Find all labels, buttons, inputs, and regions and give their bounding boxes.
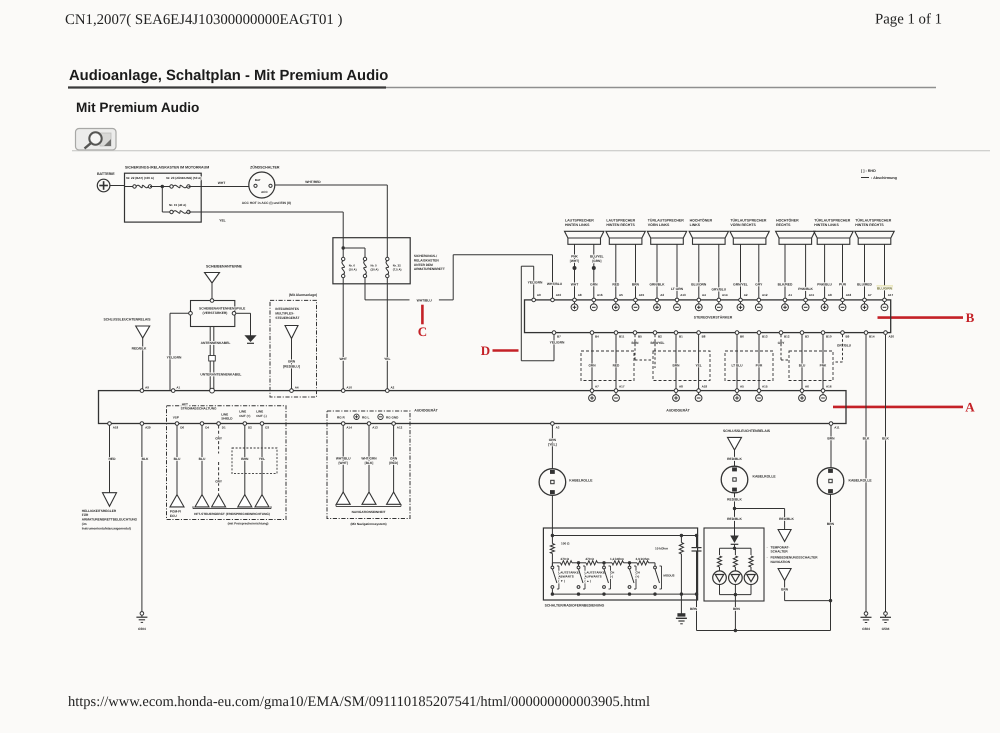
- svg-text:BLU/ORN: BLU/ORN: [691, 283, 707, 287]
- svg-text:A12: A12: [762, 293, 768, 297]
- svg-text:INTEGRIERTES: INTEGRIERTES: [275, 307, 299, 311]
- svg-text:GRY/BLU: GRY/BLU: [837, 344, 852, 348]
- svg-text:RED/BLK: RED/BLK: [779, 517, 794, 521]
- svg-text:SICHERUNGS-/: SICHERUNGS-/: [414, 254, 437, 258]
- svg-text:B2: B2: [658, 335, 662, 339]
- svg-text:AUDIOGERÄT: AUDIOGERÄT: [666, 409, 690, 413]
- switch CH minus: [603, 563, 605, 566]
- svg-text:A6: A6: [805, 385, 809, 389]
- svg-text:RED/BLK: RED/BLK: [727, 497, 742, 501]
- wire YEL D3: [261, 426, 263, 495]
- svg-text:BLK: BLK: [142, 457, 149, 461]
- svg-text:10 kOhm: 10 kOhm: [655, 546, 668, 550]
- svg-text:A13: A13: [372, 425, 378, 429]
- wire BRN D2: [244, 426, 246, 495]
- svg-text:SCHALTER: SCHALTER: [771, 550, 789, 554]
- svg-text:( ▲ ): ( ▲ ): [585, 579, 592, 583]
- svg-text:PUR: PUR: [839, 283, 847, 287]
- capacitor: [695, 534, 698, 537]
- wire antenna to coil: [211, 283, 213, 301]
- svg-text:B11: B11: [619, 335, 625, 339]
- pin antenna lead audio unit top: [210, 388, 215, 393]
- wire speaker 1 left lead: [574, 244, 576, 298]
- svg-text:A9: A9: [537, 293, 541, 297]
- wire BLK A20 to ground: [885, 335, 887, 614]
- svg-text:RED/BLK: RED/BLK: [132, 347, 147, 351]
- svg-text:KABELROLLE: KABELROLLE: [753, 475, 777, 479]
- svg-text:[RED/BLU]: [RED/BLU]: [283, 364, 300, 368]
- svg-text:D: D: [481, 343, 490, 358]
- node top bus: [551, 534, 554, 537]
- svg-text:Audioanlage, Schaltplan - Mit: Audioanlage, Schaltplan - Mit Premium Au…: [69, 68, 388, 84]
- pin B6 amplifier bottom: [735, 331, 739, 335]
- svg-text:G504: G504: [862, 627, 870, 631]
- svg-text:TÜRLAUTSPRECHER: TÜRLAUTSPRECHER: [648, 219, 684, 223]
- svg-text:VORN LINKS: VORN LINKS: [648, 223, 670, 227]
- svg-text:Nr. 15 (40 A): Nr. 15 (40 A): [169, 203, 186, 207]
- svg-text:HINTEN LINKS: HINTEN LINKS: [565, 223, 590, 227]
- svg-text:B10: B10: [826, 335, 832, 339]
- lamp resistors: [717, 556, 721, 567]
- pin A12 audio unit bottom: [392, 422, 396, 426]
- pin A9 amplifier top: [532, 298, 536, 302]
- wire BRN tempomat to bus: [784, 581, 786, 601]
- svg-text:B14: B14: [869, 335, 875, 339]
- svg-text:RED: RED: [613, 364, 620, 368]
- pin D1 audio unit bottom: [217, 422, 221, 426]
- pin B8 amplifier bottom: [697, 331, 701, 335]
- wire speaker 8 right lead: [884, 244, 886, 298]
- svg-text:A5: A5: [619, 293, 623, 297]
- svg-text:HELLIGKEITSREGLER: HELLIGKEITSREGLER: [82, 509, 117, 513]
- svg-text:C: C: [418, 324, 427, 339]
- svg-text:[WHT]: [WHT]: [570, 259, 579, 263]
- pin A14 audio unit bottom: [341, 422, 345, 426]
- svg-text:PNK/BLU: PNK/BLU: [817, 283, 832, 287]
- svg-text:A4: A4: [702, 293, 706, 297]
- svg-text:A17: A17: [619, 385, 625, 389]
- amplifier speaker polarity symbols: [571, 304, 578, 311]
- pin D4 audio unit bottom: [200, 422, 204, 426]
- wire cable reel to remote switch box: [551, 495, 553, 536]
- svg-text:ARMATURENBRETT: ARMATURENBRETT: [414, 267, 445, 271]
- pin A9 audio unit top: [140, 389, 144, 393]
- pin A18 audio unit bottom: [108, 422, 112, 426]
- svg-text:B5: B5: [638, 335, 642, 339]
- switch LAUTSTAERKE ABWAERTS: [551, 563, 553, 566]
- switch CH plus: [629, 563, 631, 566]
- cable reel KABELROLLE 1: [539, 469, 566, 496]
- pin A18 amplifier top: [841, 298, 845, 302]
- svg-text:(Mit Alarmanlage): (Mit Alarmanlage): [289, 293, 317, 297]
- svg-text:BRN: BRN: [632, 283, 640, 287]
- svg-text:SCHEIBENANTENNE: SCHEIBENANTENNE: [206, 264, 243, 268]
- svg-text:RELAISKASTEN: RELAISKASTEN: [414, 258, 439, 262]
- wire BLK B14 to ground: [865, 335, 867, 614]
- svg-text:(im: (im: [82, 522, 87, 526]
- svg-text:[BLK]: [BLK]: [365, 461, 374, 465]
- svg-text:SCHALTER/RADIOFERNBEDIENUNG: SCHALTER/RADIOFERNBEDIENUNG: [545, 603, 605, 607]
- svg-text:BLU/YEL: BLU/YEL: [590, 255, 604, 259]
- wire speaker 3 right lead: [676, 244, 678, 298]
- svg-text:Nr. 22 (BAT) (100 A): Nr. 22 (BAT) (100 A): [126, 176, 154, 180]
- lamp bus bottom: [719, 585, 721, 595]
- wire junction down to fuse Nr.15: [161, 187, 163, 213]
- svg-text:FÜR: FÜR: [82, 513, 89, 517]
- pin B14 amplifier bottom: [864, 331, 868, 335]
- svg-text:GRN/YEL: GRN/YEL: [733, 283, 748, 287]
- pin B5 amplifier bottom: [633, 331, 637, 335]
- wire WHTBLU A14 to navigation: [342, 426, 344, 493]
- svg-text:HINTEN LINKS: HINTEN LINKS: [814, 223, 839, 227]
- svg-text:GRY: GRY: [755, 283, 763, 287]
- svg-text:BLU: BLU: [174, 457, 181, 461]
- svg-text:KABELROLLE: KABELROLLE: [569, 479, 593, 483]
- svg-text:A11: A11: [834, 425, 840, 429]
- svg-text:B: B: [966, 310, 975, 325]
- svg-text:B6: B6: [740, 335, 744, 339]
- antenna cable ANTENNENKABEL: [209, 327, 211, 391]
- wire speaker 5 left lead: [740, 244, 742, 298]
- svg-text:GRN: GRN: [549, 438, 557, 442]
- svg-text:A10: A10: [346, 385, 352, 389]
- pin A10 amplifier top: [551, 298, 555, 302]
- pin B1 amplifier bottom: [674, 331, 678, 335]
- svg-text:BLK: BLK: [882, 437, 889, 441]
- svg-text:RED: RED: [109, 457, 117, 461]
- svg-text:TÜRLAUTSPRECHER: TÜRLAUTSPRECHER: [855, 219, 891, 223]
- svg-text:YEL: YEL: [259, 457, 265, 461]
- pin B11 amplifier bottom: [614, 331, 618, 335]
- svg-text:A29: A29: [145, 425, 151, 429]
- illumination lamps: [713, 571, 727, 585]
- svg-text:HINTEN RECHTS: HINTEN RECHTS: [855, 223, 884, 227]
- svg-text:BRN: BRN: [690, 607, 698, 611]
- svg-text:PGM-FI: PGM-FI: [170, 510, 181, 514]
- wire speaker 6 right lead: [805, 244, 807, 298]
- fuse Nr.32 7.5A: [386, 257, 389, 260]
- wire speaker 2 left lead: [615, 244, 617, 298]
- wire pair B6 B13 to audio A5 A15: [736, 335, 738, 389]
- bus BRN bottom: [697, 630, 831, 632]
- fuse Nr.23: [170, 185, 173, 188]
- svg-text:TÜRLAUTSPRECHER: TÜRLAUTSPRECHER: [730, 219, 766, 223]
- illumination box with diode and lamps: [704, 528, 764, 601]
- svg-text:HFT-STEUERGERÄT (FREISPRECHEIN: HFT-STEUERGERÄT (FREISPRECHEINRICHTUNG): [194, 512, 270, 516]
- svg-text:B13: B13: [762, 335, 768, 339]
- svg-text:GRY: GRY: [215, 479, 223, 483]
- svg-text:G504: G504: [882, 627, 890, 631]
- svg-text:A7: A7: [595, 385, 599, 389]
- wire WHT fuse box to ignition switch: [201, 186, 249, 188]
- ground G504 left: [140, 612, 144, 616]
- svg-text:B12: B12: [784, 335, 790, 339]
- svg-text:B7: B7: [557, 335, 561, 339]
- svg-text:(7,5 A): (7,5 A): [393, 268, 402, 272]
- pin A5 audio unit top: [735, 389, 739, 393]
- svg-text:HINTEN RECHTS: HINTEN RECHTS: [606, 223, 635, 227]
- svg-text:G504: G504: [138, 627, 146, 631]
- pin A16 amplifier top: [592, 298, 596, 302]
- control unit NAVIGATIONSEINHEIT dashed box: [327, 411, 410, 519]
- svg-text:OUT (-): OUT (-): [256, 414, 266, 418]
- bottom bus remote switch box: [551, 589, 553, 594]
- svg-text:WHT/GRN: WHT/GRN: [361, 456, 377, 460]
- svg-text:BATTERIE: BATTERIE: [97, 172, 115, 176]
- svg-text:(Mit Navigationssystem): (Mit Navigationssystem): [350, 522, 386, 526]
- svg-text:100 Ω: 100 Ω: [561, 541, 570, 545]
- pin A16 audio unit top: [821, 389, 825, 393]
- pin B13 amplifier bottom: [757, 331, 761, 335]
- svg-text:BRN: BRN: [733, 607, 741, 611]
- arrow TEMPOMAT switch: [778, 530, 791, 542]
- pin A5 amplifier top: [614, 298, 618, 302]
- svg-text:LT BLU: LT BLU: [731, 364, 743, 368]
- control unit HFT dashed box: [167, 406, 287, 520]
- ground G504 right 1: [864, 612, 868, 616]
- svg-text:A17: A17: [888, 293, 894, 297]
- antenna coil box SCHEIBENANTENNENSPULE: [191, 301, 235, 327]
- pin A15 amplifier top: [634, 298, 638, 302]
- svg-text:STEREOVERSTÄRKER: STEREOVERSTÄRKER: [694, 315, 733, 319]
- wire BRN cable reel 3 to bus: [830, 494, 832, 631]
- svg-text:LAUTSPRECHER: LAUTSPRECHER: [606, 219, 635, 223]
- wire WHTGRN A13 to navigation: [368, 426, 370, 493]
- svg-text:YEL: YEL: [695, 364, 701, 368]
- svg-text:HOCHTÖNER: HOCHTÖNER: [690, 219, 713, 223]
- svg-text:A2: A2: [744, 293, 748, 297]
- wire BRN A11 to cable reel 3: [830, 426, 832, 469]
- svg-text:WHT/BLU: WHT/BLU: [547, 282, 563, 286]
- svg-text:A9: A9: [145, 385, 149, 389]
- svg-text:B4: B4: [595, 335, 599, 339]
- arrow navigation remote switch: [778, 569, 791, 581]
- node split REDBLK: [733, 507, 736, 510]
- pin A11 audio unit bottom: [829, 422, 833, 426]
- svg-text:STROMABSCHALTUNG: STROMABSCHALTUNG: [181, 407, 217, 411]
- pin A18 audio unit top: [697, 389, 701, 393]
- wire BLU D4: [201, 426, 203, 495]
- svg-text:A20: A20: [889, 335, 895, 339]
- svg-text:RG R: RG R: [337, 415, 346, 419]
- svg-text:RG GND: RG GND: [386, 415, 399, 419]
- svg-text:A14: A14: [722, 293, 728, 297]
- svg-text:BRN: BRN: [673, 364, 681, 368]
- svg-text:WHT: WHT: [218, 181, 226, 185]
- svg-text:A10: A10: [556, 293, 562, 297]
- svg-text:ANTENNENKABEL: ANTENNENKABEL: [201, 341, 231, 345]
- svg-text:PNK: PNK: [571, 255, 578, 259]
- svg-text:A8: A8: [679, 385, 683, 389]
- svg-text:A11: A11: [809, 293, 815, 297]
- pin A17 amplifier top: [883, 298, 887, 302]
- pin A1 amplifier top: [783, 298, 787, 302]
- svg-text:BLU/RED: BLU/RED: [857, 283, 872, 287]
- svg-text:BRN/YEL: BRN/YEL: [651, 341, 665, 345]
- pin A3 audio unit bottom: [551, 422, 555, 426]
- svg-text:Nr. 6: Nr. 6: [349, 263, 356, 267]
- ground antenna coil: [246, 336, 256, 342]
- svg-text:AUFWÄRTS: AUFWÄRTS: [585, 575, 602, 579]
- svg-text:YEL/GRN: YEL/GRN: [550, 341, 565, 345]
- svg-text:Instrumententafelanzeigemodul): Instrumententafelanzeigemodul): [82, 526, 131, 530]
- wire RED A18 to dimmer: [109, 426, 111, 493]
- svg-text:BLU: BLU: [199, 457, 206, 461]
- wire REDBLK relay to cable reel 2: [734, 450, 736, 467]
- svg-text:A1: A1: [788, 293, 792, 297]
- annotation C marker: [421, 305, 424, 325]
- wire speaker 4 left lead: [698, 244, 700, 298]
- svg-text:[RED]: [RED]: [389, 461, 398, 465]
- svg-text:ABWÄRTS: ABWÄRTS: [558, 575, 573, 579]
- svg-text:D4: D4: [205, 425, 209, 429]
- pin B9 amplifier bottom: [841, 331, 845, 335]
- pin A4 amplifier top: [697, 298, 701, 302]
- wire speaker 6 left lead: [784, 244, 786, 298]
- switch MODUS: [654, 563, 656, 566]
- svg-text:RED/BLK: RED/BLK: [727, 457, 742, 461]
- svg-text:A5: A5: [740, 385, 744, 389]
- pin A4 audio unit top: [290, 389, 294, 393]
- svg-text:GRY/BLU: GRY/BLU: [711, 288, 726, 292]
- svg-text:D2: D2: [248, 425, 252, 429]
- svg-text:GRN: GRN: [288, 359, 296, 363]
- svg-text:A18: A18: [113, 425, 119, 429]
- svg-text:PNK/BLK: PNK/BLK: [798, 287, 813, 291]
- svg-text:A8: A8: [828, 293, 832, 297]
- pin B3 amplifier bottom: [800, 331, 804, 335]
- svg-text:BLU/GRN: BLU/GRN: [877, 286, 893, 290]
- pin A8 amplifier top: [823, 298, 827, 302]
- amplifier STEREOVERSTAERKER box: [525, 300, 891, 333]
- svg-text:YEL/GRN: YEL/GRN: [528, 281, 543, 285]
- bracket HFT-STEUERGERAET: [193, 508, 271, 510]
- svg-text:SHIELD: SHIELD: [221, 417, 233, 421]
- svg-text:ARMATURENBRETTBELEUCHTUNG: ARMATURENBRETTBELEUCHTUNG: [82, 518, 138, 522]
- svg-text:WHT: WHT: [571, 283, 579, 287]
- svg-text:(-): (-): [610, 575, 613, 579]
- wire speaker 7 right lead: [842, 244, 844, 298]
- dimmer arrow HELLIGKEITSREGLER: [103, 493, 117, 507]
- svg-text:VORN RECHTS: VORN RECHTS: [730, 223, 756, 227]
- wire WHTBLU fuse5 to amplifier A10: [364, 278, 366, 300]
- wire BLU D6 to PGM-FI ECU: [176, 426, 178, 495]
- svg-text:FERNBEDIENUNGSSCHALTER: FERNBEDIENUNGSSCHALTER: [771, 556, 819, 560]
- svg-text:AUDIOGERÄT: AUDIOGERÄT: [414, 409, 438, 413]
- pin A10 audio unit top: [341, 389, 345, 393]
- svg-text:D6: D6: [180, 425, 184, 429]
- svg-text:[WHT]: [WHT]: [339, 461, 348, 465]
- wire pair B4 B11 to audio A7 A17: [591, 335, 593, 389]
- svg-text:CN1,2007( SEA6EJ4J10300000000E: CN1,2007( SEA6EJ4J10300000000EAGT01 ): [65, 12, 343, 28]
- svg-text:LAUTSPRECHER: LAUTSPRECHER: [565, 219, 594, 223]
- wire box to ground: [680, 594, 682, 615]
- pin A3 amplifier top: [655, 298, 659, 302]
- switch LAUTSTAERKE AUFWAERTS: [578, 563, 580, 566]
- svg-text:STEUERGERÄT: STEUERGERÄT: [275, 316, 299, 320]
- svg-text:PNK: PNK: [820, 364, 827, 368]
- svg-text:A13: A13: [680, 293, 686, 297]
- svg-text:LT GRN: LT GRN: [671, 287, 684, 291]
- shield box pair 1: [581, 351, 634, 381]
- svg-text:[ ] : RHD: [ ] : RHD: [861, 169, 876, 173]
- arrows into HFT STEUERGERAET: [195, 495, 209, 507]
- svg-text:A15: A15: [639, 293, 645, 297]
- svg-text:A16: A16: [826, 385, 832, 389]
- wire pair B1 B8 to audio A8 A18: [675, 335, 677, 389]
- svg-text:(10 A): (10 A): [349, 268, 357, 272]
- svg-text:BRN: BRN: [827, 522, 835, 526]
- svg-text:ZÜNDSCHALTER: ZÜNDSCHALTER: [250, 165, 280, 170]
- wire WHT fuse6 to audio unit A10: [342, 278, 344, 391]
- annotation A marker: [833, 406, 963, 409]
- svg-text:WHT: WHT: [339, 357, 347, 361]
- toolbar separator rule: [72, 150, 990, 152]
- svg-text:A8: A8: [578, 293, 582, 297]
- pin D3 audio unit bottom: [260, 422, 264, 426]
- svg-text:(20 A): (20 A): [371, 268, 379, 272]
- svg-text:HFT: HFT: [182, 402, 188, 406]
- svg-text:UNTER DEM: UNTER DEM: [414, 263, 433, 267]
- svg-text:BRN: BRN: [241, 457, 249, 461]
- audio unit AUDIOGERAET box: [99, 391, 847, 424]
- lamp bus top: [720, 547, 752, 549]
- fuse box SICHERUNGS-RELAISKASTEN UNTER DEM ARMATURENBRETT: [333, 238, 410, 284]
- shield box pair 3: [725, 351, 773, 381]
- svg-text:( ▼ ): ( ▼ ): [558, 579, 565, 583]
- svg-text:BLK/RED: BLK/RED: [778, 283, 793, 287]
- svg-text:A7: A7: [868, 293, 872, 297]
- svg-text:WHT/BLU: WHT/BLU: [336, 456, 351, 460]
- svg-text:NAVIGATIONSEINHEIT: NAVIGATIONSEINHEIT: [352, 510, 386, 514]
- svg-text:LINE: LINE: [239, 409, 246, 413]
- svg-text:https://www.ecom.honda-eu.com/: https://www.ecom.honda-eu.com/gma10/EMA/…: [68, 694, 650, 710]
- svg-text:D1: D1: [222, 425, 226, 429]
- highlighted label BLUGRN: [877, 285, 894, 290]
- wire YELGRN amplifier A9 to B7 loop: [533, 266, 535, 298]
- svg-text:B1: B1: [679, 335, 683, 339]
- audio unit polarity symbols: [589, 395, 596, 402]
- wire speaker 3 left lead: [656, 244, 658, 298]
- svg-text:GRN: GRN: [588, 364, 596, 368]
- svg-text:A: A: [965, 400, 975, 415]
- wire GRY shield D1 dashed: [218, 426, 220, 454]
- svg-text:SICHERUNGS-/RELAISKASTEN IM MO: SICHERUNGS-/RELAISKASTEN IM MOTORRAUM: [125, 166, 209, 170]
- svg-text:MODUS: MODUS: [663, 574, 674, 578]
- svg-text:A16: A16: [597, 293, 603, 297]
- svg-text:Nr. 5: Nr. 5: [371, 263, 378, 267]
- output arrow multiplex unit: [285, 326, 298, 339]
- svg-text:A3: A3: [556, 425, 560, 429]
- svg-text:NAVIGATION: NAVIGATION: [771, 560, 791, 564]
- svg-text:UNTERANTENNENKABEL: UNTERANTENNENKABEL: [200, 372, 241, 376]
- svg-text:: Abschirmung: : Abschirmung: [871, 176, 897, 180]
- pin A6 audio unit top: [800, 389, 804, 393]
- pin A7 audio unit top: [590, 389, 594, 393]
- svg-text:A4: A4: [295, 385, 299, 389]
- svg-text:Nr. 23 (ZÜNDUNG) (50 A): Nr. 23 (ZÜNDUNG) (50 A): [166, 176, 201, 180]
- svg-text:YEL: YEL: [384, 357, 390, 361]
- svg-text:B3: B3: [805, 335, 809, 339]
- svg-text:SCHLUSSLEUCHTENRELAIS: SCHLUSSLEUCHTENRELAIS: [723, 429, 771, 433]
- svg-text:Page 1 of 1: Page 1 of 1: [875, 12, 942, 28]
- svg-text:VSP: VSP: [173, 416, 179, 420]
- cable reel KABELROLLE 3: [817, 468, 844, 495]
- cable reel KABELROLLE 2: [721, 466, 748, 493]
- svg-text:ACC HOT in ACC (I) und EIN (II: ACC HOT in ACC (I) und EIN (II): [242, 201, 291, 205]
- pin A2 amplifier top: [739, 298, 743, 302]
- ground G504 right 2: [884, 612, 888, 616]
